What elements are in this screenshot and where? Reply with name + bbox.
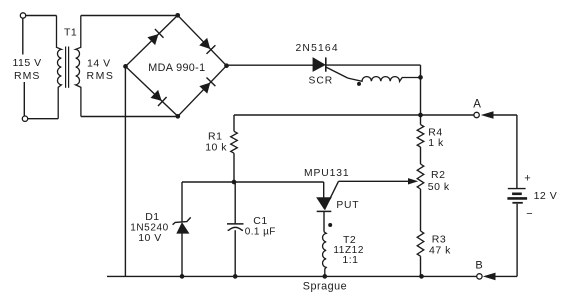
inductor: T2 primary winding [323, 232, 327, 277]
wire: R1 bottom lead [233, 153, 235, 182]
svg-text:R3: R3 [432, 233, 446, 245]
node A terminal [474, 112, 479, 117]
wire: PUT gate rail to R2 wiper [339, 180, 410, 182]
wire: R1 top lead from A rail [233, 115, 235, 131]
bridge diode D upper-right (points to right corner) [200, 38, 210, 48]
node: bridge right corner [224, 63, 229, 68]
svg-text:+: + [524, 172, 531, 184]
wire: bridge edge top-left [126, 15, 178, 66]
wire: top terminal to transformer primary [26, 15, 57, 17]
bridge diode D upper-left (points to top corner) [148, 35, 158, 45]
arrow into R2 wiper [408, 179, 417, 185]
svg-text:RMS: RMS [87, 70, 115, 82]
node: C1 on bottom rail [233, 274, 238, 279]
resistor R1 [231, 131, 238, 153]
svg-text:SCR: SCR [309, 76, 334, 87]
svg-text:115 V: 115 V [13, 57, 42, 69]
transformer T1 secondary winding [76, 16, 81, 117]
wire: bridge edge bottom-right [178, 66, 227, 117]
svg-text:−: − [526, 208, 533, 220]
svg-text:A: A [473, 98, 481, 110]
svg-text:2N5164: 2N5164 [296, 43, 339, 54]
wire: C1 top lead [234, 182, 236, 224]
node: coil to cathode column junction [418, 75, 423, 80]
wire: R4 top lead [420, 115, 422, 125]
wire: SCR cathode to right column [327, 64, 421, 66]
bridge diode D lower-right (points to right corner) [200, 83, 210, 93]
resistor R3 [417, 231, 424, 256]
wire: middle rail (C1/R1 node to PUT anode) [182, 181, 324, 183]
SCR 2N5164 triangle [313, 58, 325, 72]
transformer T1 core [65, 47, 67, 88]
bridge diode D lower-left (points to bottom corner) [151, 91, 161, 101]
svg-text:B: B [475, 259, 483, 271]
node: bridge left corner [123, 64, 128, 69]
wire: PUT cathode to T2 [323, 211, 325, 231]
zener bar D1 [173, 217, 191, 224]
PUT MPU131 triangle [317, 198, 332, 209]
node: T2 on bottom rail [322, 274, 327, 279]
arrow into node B [484, 273, 495, 280]
node: bridge top corner [175, 13, 180, 18]
wire: D1 top lead [181, 182, 183, 222]
svg-text:Sprague: Sprague [303, 280, 347, 292]
wire: bottom terminal to transformer primary [28, 118, 59, 120]
capacitor C1 bottom plate [228, 227, 243, 230]
zener diode D1 triangle [177, 223, 189, 234]
battery plate 3 long thick [507, 197, 527, 200]
svg-text:1 k: 1 k [428, 137, 444, 149]
transformer T1 primary winding [57, 16, 62, 119]
wire: bridge right corner to SCR anode [227, 64, 313, 66]
svg-text:D1: D1 [145, 211, 159, 223]
svg-text:RMS: RMS [14, 70, 40, 82]
svg-text:PUT: PUT [336, 200, 359, 211]
wire: node A arrow to battery top [493, 114, 517, 116]
wire: right column vertical (cathode down to node A rail) [420, 65, 422, 115]
wire: bridge edge top-right [178, 15, 227, 65]
wire: AC bottom lead from label to terminal [23, 82, 25, 116]
svg-text:C1: C1 [253, 215, 267, 227]
svg-text:MPU131: MPU131 [304, 168, 349, 179]
node: R3 on bottom rail [419, 274, 424, 279]
PUT gate lead diagonal [325, 181, 339, 209]
wire: secondary top to bridge top corner [81, 15, 178, 17]
battery plate 2 short thick [512, 193, 522, 196]
svg-text:R2: R2 [431, 169, 445, 181]
terminal: AC input bottom [22, 116, 27, 121]
resistor R4 [417, 125, 424, 147]
node: R1/C1 junction [232, 180, 237, 185]
node: junction right column / A rail [418, 113, 423, 118]
svg-text:10 k: 10 k [205, 142, 227, 154]
SCR cathode bar [325, 57, 327, 71]
SCR gate lead [326, 67, 348, 78]
svg-text:1:1: 1:1 [342, 254, 358, 266]
terminal: AC input top [20, 13, 25, 18]
arrow into node A [482, 112, 493, 119]
wire: D1 bottom lead [181, 233, 183, 276]
svg-text:47 k: 47 k [429, 245, 451, 257]
wire: R4 to R2 [420, 147, 422, 164]
potentiometer R2 [417, 164, 424, 189]
svg-text:T1: T1 [64, 26, 77, 38]
svg-text:50 k: 50 k [428, 181, 450, 193]
wire: C1 bottom lead [234, 230, 236, 276]
wire: bottom rail [107, 275, 477, 277]
battery plate 1 long [508, 188, 526, 190]
T2 primary phasing dot [328, 223, 332, 227]
wire: battery positive lead down [516, 115, 518, 188]
battery plate 4 short [512, 202, 522, 204]
inductor: T2 secondary winding (SCR gate) [348, 77, 421, 82]
wire: R2 to R3 [420, 189, 422, 231]
T2 secondary phasing dot [357, 82, 361, 86]
wire: PUT anode lead [323, 182, 325, 198]
wire: bridge left corner down to bottom rail [124, 66, 126, 276]
node: bridge bottom corner [175, 114, 180, 119]
svg-text:0.1 µF: 0.1 µF [245, 227, 276, 238]
node B terminal [477, 274, 482, 279]
wire: R3 bottom lead [420, 256, 422, 276]
svg-text:10 V: 10 V [138, 232, 162, 244]
capacitor C1 top plate [227, 223, 244, 225]
wire: node B arrow to battery bottom [495, 275, 518, 277]
node: D1 on bottom rail [180, 274, 185, 279]
wire: secondary bottom to bridge bottom corner [81, 116, 178, 118]
wire: AC top lead down to 115V label [22, 18, 24, 54]
svg-text:MDA 990-1: MDA 990-1 [148, 62, 205, 74]
PUT cathode bar [317, 210, 332, 212]
svg-text:12 V: 12 V [534, 190, 558, 202]
wire: bridge edge bottom-left [126, 66, 178, 116]
svg-text:14 V: 14 V [87, 58, 111, 70]
wire: node-A rail [234, 114, 474, 116]
wire: battery negative lead down [516, 204, 518, 277]
